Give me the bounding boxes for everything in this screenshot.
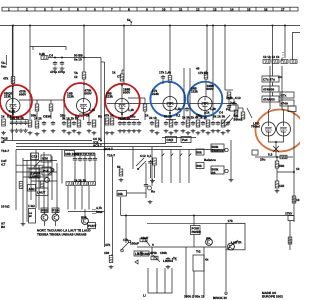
wire bbox=[242, 108, 244, 112]
component cluster bbox=[150, 120, 179, 135]
svg-text:1,2k: 1,2k bbox=[9, 109, 15, 113]
junction bbox=[169, 103, 171, 105]
wire bbox=[104, 62, 106, 150]
svg-text:AC9 7: AC9 7 bbox=[93, 143, 102, 147]
resistor R5 bbox=[168, 76, 172, 83]
svg-text:1,2k: 1,2k bbox=[128, 108, 134, 112]
wire bbox=[83, 112, 85, 121]
capacitor C5 bbox=[19, 121, 23, 126]
wire bbox=[283, 110, 285, 123]
wire bbox=[151, 247, 153, 256]
svg-text:AC9 7: AC9 7 bbox=[104, 147, 113, 151]
wire bbox=[75, 152, 95, 154]
junction bbox=[54, 57, 56, 59]
svg-text:1k 1k 1k 1k: 1k 1k 1k 1k bbox=[263, 55, 280, 59]
component box bbox=[65, 151, 75, 157]
wire bbox=[10, 119, 28, 121]
wire bbox=[17, 7, 19, 11]
tube V5 bbox=[198, 97, 212, 111]
wire bbox=[144, 98, 146, 104]
component box bbox=[41, 208, 48, 213]
wire bbox=[145, 188, 147, 198]
wire bbox=[44, 221, 46, 226]
wire bbox=[12, 84, 14, 100]
wire group bbox=[18, 7, 290, 11]
svg-text:Pa4: Pa4 bbox=[182, 138, 188, 142]
svg-text:10k: 10k bbox=[118, 192, 123, 196]
resistor R18 bbox=[155, 120, 159, 127]
transistor Q5 bbox=[228, 243, 235, 250]
wire bbox=[132, 147, 134, 170]
wire bbox=[212, 26, 214, 121]
pin bbox=[225, 148, 228, 151]
svg-text:TEIGEA TEIGEA UNIUAB UNIU: TEIGEA TEIGEA UNIUAB UNIUAB bbox=[37, 233, 87, 237]
wire bbox=[205, 79, 207, 98]
svg-text:LABTR: LABTR bbox=[231, 241, 242, 245]
svg-text:1k: 1k bbox=[296, 167, 300, 171]
capacitor C32 bbox=[88, 157, 92, 162]
transistor Q2 bbox=[52, 214, 59, 221]
wire bbox=[206, 26, 208, 72]
svg-text:4,7: 4,7 bbox=[1, 163, 6, 167]
switch area bbox=[117, 147, 152, 204]
svg-text:2: 2 bbox=[26, 8, 28, 12]
resistor R40 bbox=[119, 169, 123, 176]
capacitor C16 bbox=[137, 121, 141, 126]
pin bbox=[148, 186, 152, 190]
left of orange circle parts bbox=[230, 105, 238, 111]
resistor R39 bbox=[81, 182, 88, 186]
svg-text:1k: 1k bbox=[296, 198, 300, 202]
svg-text:44Ω: 44Ω bbox=[29, 187, 35, 191]
capacitor C30 bbox=[78, 157, 82, 162]
transistor Q1 bbox=[41, 214, 48, 221]
svg-text:17: 17 bbox=[281, 8, 285, 12]
wire bbox=[83, 58, 85, 73]
capacitor C31 bbox=[83, 157, 87, 162]
resistor R15 bbox=[92, 120, 96, 127]
wire bbox=[120, 119, 139, 121]
svg-text:47k: 47k bbox=[3, 77, 8, 81]
svg-text:7uF: 7uF bbox=[230, 101, 236, 105]
svg-text:223k: 223k bbox=[67, 95, 74, 99]
svg-text:224k: 224k bbox=[152, 92, 159, 96]
ground bbox=[119, 178, 124, 182]
component box bbox=[29, 209, 36, 224]
resistor R32 bbox=[275, 161, 279, 168]
svg-text:Rs: Rs bbox=[151, 190, 155, 194]
wire bbox=[233, 98, 235, 105]
svg-text:474A/60: 474A/60 bbox=[263, 98, 275, 102]
svg-text:1k: 1k bbox=[1, 115, 5, 119]
svg-text:223k: 223k bbox=[106, 95, 113, 99]
svg-text:0,1 0,1 0,1 0,1: 0,1 0,1 0,1 0,1 bbox=[75, 153, 95, 157]
pin bbox=[121, 249, 124, 252]
svg-text:C12: C12 bbox=[140, 154, 146, 158]
svg-text:750ml: 750ml bbox=[251, 125, 260, 129]
component box bbox=[117, 191, 127, 197]
resistor R38 bbox=[74, 182, 81, 186]
wire bbox=[203, 247, 205, 297]
resistor R31 bbox=[280, 155, 287, 159]
junction bbox=[275, 141, 277, 143]
wire bbox=[193, 216, 195, 226]
svg-text:4: 4 bbox=[60, 8, 62, 12]
svg-text:100uF: 100uF bbox=[130, 242, 139, 246]
wire bbox=[68, 211, 105, 213]
resistor R29 bbox=[290, 60, 297, 64]
svg-text:C12: C12 bbox=[235, 96, 241, 100]
ground bbox=[21, 222, 26, 226]
capacitor C11 bbox=[87, 121, 91, 126]
svg-text:1k: 1k bbox=[112, 71, 116, 75]
resistor R36 bbox=[40, 181, 44, 188]
vertical feeds bbox=[11, 26, 13, 141]
right lower chain bbox=[255, 156, 293, 158]
wire bbox=[204, 110, 206, 121]
wire bbox=[225, 118, 233, 127]
wire bbox=[127, 192, 147, 194]
transistor Q3 bbox=[82, 218, 89, 225]
wire bbox=[125, 216, 127, 244]
wire bbox=[277, 171, 294, 173]
wire bbox=[5, 55, 7, 65]
svg-text:474/600: 474/600 bbox=[263, 88, 274, 92]
component box bbox=[280, 92, 294, 98]
lower-left dense block bbox=[16, 150, 96, 227]
resistor R37 bbox=[66, 182, 73, 186]
component box bbox=[196, 163, 204, 169]
wire bbox=[55, 221, 57, 226]
junction bbox=[125, 215, 127, 217]
wire bbox=[83, 26, 85, 58]
wire bbox=[169, 26, 171, 76]
main supply bus bbox=[0, 25, 300, 27]
wire bbox=[166, 119, 176, 121]
right column small parts bbox=[288, 216, 294, 221]
svg-text:4x: 4x bbox=[205, 258, 209, 262]
capacitor C18 bbox=[164, 121, 168, 126]
tube V2 bbox=[77, 99, 91, 113]
svg-text:46: 46 bbox=[196, 67, 200, 71]
ground bbox=[229, 178, 234, 182]
svg-text:0,1: 0,1 bbox=[176, 114, 181, 118]
svg-text:BRICK IN: BRICK IN bbox=[213, 296, 228, 300]
svg-text:44: 44 bbox=[1, 140, 5, 144]
wire bbox=[31, 180, 57, 182]
wire bbox=[26, 160, 28, 222]
wire bbox=[162, 80, 164, 84]
wire bbox=[193, 235, 195, 248]
capacitor C4 bbox=[14, 121, 18, 126]
resistor R28 bbox=[281, 60, 288, 64]
resistor R21 bbox=[196, 120, 200, 127]
pin bbox=[45, 178, 50, 183]
wire bbox=[16, 146, 182, 148]
svg-text:1k: 1k bbox=[86, 114, 90, 118]
svg-text:T16-7: T16-7 bbox=[107, 154, 115, 158]
component box bbox=[36, 188, 48, 196]
capacitor C17 bbox=[150, 121, 154, 126]
svg-text:1,2k: 1,2k bbox=[175, 107, 181, 111]
svg-text:0,1: 0,1 bbox=[75, 115, 80, 119]
svg-text:LAWD: LAWD bbox=[30, 175, 40, 179]
orange circle output pair bbox=[256, 110, 305, 152]
component box bbox=[52, 208, 59, 213]
ground bbox=[166, 265, 171, 269]
svg-text:13: 13 bbox=[213, 8, 217, 12]
svg-text:6a 10: 6a 10 bbox=[74, 58, 82, 62]
svg-text:500: 500 bbox=[279, 164, 284, 168]
wire bbox=[228, 99, 230, 104]
red circle V3 bbox=[105, 84, 140, 119]
wire bbox=[75, 153, 95, 157]
capacitor C25 bbox=[226, 121, 230, 126]
wire bbox=[35, 150, 37, 208]
svg-text:100k: 100k bbox=[160, 251, 167, 255]
wire bbox=[276, 172, 278, 181]
svg-text:17k: 17k bbox=[228, 219, 233, 223]
middle bus lines bbox=[3, 140, 92, 142]
wire bbox=[23, 176, 48, 178]
blue circle V4 bbox=[150, 82, 185, 117]
svg-text:3,3k: 3,3k bbox=[39, 52, 45, 56]
wire bbox=[275, 142, 277, 152]
wire bbox=[151, 147, 153, 187]
resistor R8 bbox=[49, 104, 53, 111]
red circle V2 bbox=[64, 83, 97, 116]
wire bbox=[193, 271, 195, 297]
capacitor C29 bbox=[73, 157, 77, 162]
wire bbox=[268, 110, 270, 123]
wire bbox=[282, 52, 284, 58]
wire bbox=[34, 161, 40, 167]
svg-text:Balance: Balance bbox=[204, 158, 216, 162]
resistor R16 bbox=[105, 118, 109, 125]
component box bbox=[29, 169, 40, 178]
capacitor C13 bbox=[122, 121, 126, 126]
wire bbox=[156, 268, 158, 293]
wire bbox=[282, 109, 284, 110]
wire bbox=[230, 140, 232, 178]
pin bbox=[51, 169, 54, 172]
svg-text:5k: 5k bbox=[117, 165, 121, 169]
svg-text:BBm2: BBm2 bbox=[234, 118, 243, 122]
ground bbox=[148, 200, 153, 204]
tube V4 bbox=[163, 97, 177, 111]
junction bbox=[169, 81, 171, 83]
resistor R43 bbox=[109, 256, 113, 263]
capacitor C10 bbox=[72, 121, 76, 126]
capacitor C35 bbox=[166, 257, 170, 262]
svg-text:1 kΩ: 1 kΩ bbox=[28, 204, 35, 208]
wire bbox=[164, 268, 166, 293]
component box bbox=[41, 155, 51, 162]
wire bbox=[48, 57, 101, 59]
svg-text:GR: GR bbox=[206, 237, 211, 241]
svg-text:223k: 223k bbox=[191, 90, 198, 94]
component box bbox=[262, 86, 279, 92]
junction bbox=[12, 85, 14, 87]
svg-text:47k 1k: 47k 1k bbox=[104, 114, 114, 118]
svg-text:9: 9 bbox=[146, 8, 148, 12]
wire bbox=[123, 26, 125, 85]
terminal strip ruler bbox=[2, 7, 298, 11]
component box bbox=[280, 100, 294, 106]
row of resistors top right bbox=[263, 60, 270, 64]
resistor R44 bbox=[140, 238, 147, 242]
svg-text:47k: 47k bbox=[105, 243, 110, 247]
resistor R25 bbox=[234, 110, 238, 117]
svg-text:B2: B2 bbox=[1, 225, 5, 229]
component box bbox=[31, 153, 39, 160]
svg-text:50k: 50k bbox=[197, 164, 202, 168]
wire bbox=[37, 100, 51, 119]
wire bbox=[170, 150, 172, 184]
svg-text:5: 5 bbox=[77, 8, 79, 12]
svg-text:0,1: 0,1 bbox=[7, 115, 12, 119]
wire bbox=[273, 146, 279, 152]
under-tube component clusters bbox=[1, 119, 55, 136]
wire bbox=[189, 68, 191, 120]
inter-tube resistors bbox=[35, 104, 39, 111]
junction bbox=[83, 83, 85, 85]
resistor R1 bbox=[41, 56, 48, 60]
wire bbox=[144, 238, 150, 246]
resistor R17 bbox=[110, 118, 114, 125]
svg-text:750k: 750k bbox=[226, 96, 233, 100]
svg-text:R5: R5 bbox=[212, 171, 216, 175]
tubes bbox=[6, 99, 20, 113]
wire bbox=[179, 150, 181, 184]
svg-text:5k 2k: 5k 2k bbox=[164, 115, 172, 119]
wire bbox=[16, 164, 44, 166]
wire bbox=[227, 240, 238, 249]
wire bbox=[101, 61, 105, 63]
wire bbox=[169, 110, 171, 121]
svg-text:474A: 474A bbox=[281, 102, 289, 106]
svg-text:7: 7 bbox=[111, 8, 113, 12]
wire bbox=[84, 209, 86, 218]
long mid verticals bbox=[104, 150, 106, 248]
wire bbox=[83, 79, 85, 100]
wire bbox=[293, 33, 301, 61]
svg-text:a: a bbox=[152, 243, 154, 247]
component box bbox=[181, 137, 191, 143]
svg-text:PUNT: PUNT bbox=[88, 224, 97, 228]
wire bbox=[135, 260, 138, 264]
resistor R40 bbox=[89, 182, 96, 186]
wire bbox=[275, 152, 277, 157]
wire bbox=[247, 108, 252, 118]
capacitor C19 bbox=[174, 121, 178, 126]
svg-text:10uF: 10uF bbox=[141, 236, 148, 240]
wire bbox=[224, 26, 226, 91]
capacitor C20 bbox=[181, 121, 185, 126]
wire bbox=[38, 165, 40, 210]
svg-text:5au: 5au bbox=[1, 65, 6, 69]
svg-text:RWER: RWER bbox=[192, 230, 202, 234]
component box bbox=[191, 226, 201, 235]
wire bbox=[293, 112, 295, 157]
wire bbox=[147, 222, 245, 224]
wire bbox=[121, 84, 123, 100]
svg-text:P1B: P1B bbox=[53, 209, 60, 213]
verticals between blue circles bbox=[183, 68, 185, 120]
wire bbox=[153, 255, 160, 262]
wire bbox=[48, 169, 54, 175]
capacitor C33 bbox=[93, 157, 97, 162]
svg-text:5k 1k 3k: 5k 1k 3k bbox=[213, 115, 225, 119]
resistor R19 bbox=[169, 120, 173, 127]
capacitor C28 bbox=[227, 104, 231, 109]
blue circle V5 bbox=[188, 82, 223, 117]
mid cluster caps x75-105 bbox=[62, 150, 105, 212]
lower middle cluster bbox=[109, 216, 238, 298]
wire bbox=[43, 152, 45, 213]
wire bbox=[276, 157, 278, 161]
capacitor C2 bbox=[60, 61, 64, 66]
svg-text:1k: 1k bbox=[206, 111, 210, 115]
output tubes bbox=[262, 122, 276, 136]
wire bbox=[29, 47, 31, 120]
component box bbox=[211, 166, 224, 174]
capacitor C9 bbox=[62, 121, 66, 126]
wire bbox=[272, 92, 274, 96]
svg-text:4n: 4n bbox=[278, 75, 282, 79]
svg-text:2k 1k: 2k 1k bbox=[149, 116, 157, 120]
resistor R6 bbox=[204, 72, 208, 79]
horizontal line through blue tubes bbox=[107, 103, 237, 105]
wire bbox=[128, 97, 145, 99]
pin bbox=[128, 240, 131, 243]
resistor R9 bbox=[143, 104, 147, 111]
component box bbox=[142, 251, 149, 256]
junction bbox=[12, 25, 14, 27]
component cluster bbox=[181, 115, 233, 135]
component box bbox=[88, 223, 96, 229]
svg-text:12: 12 bbox=[196, 8, 200, 12]
wire bbox=[150, 165, 152, 178]
svg-text:1k: 1k bbox=[74, 75, 78, 79]
resistor R30 bbox=[241, 112, 245, 119]
svg-text:0,1: 0,1 bbox=[147, 154, 152, 158]
resistor R41 bbox=[153, 158, 157, 165]
svg-text:470p 470p: 470p 470p bbox=[50, 70, 65, 74]
svg-text:17k 1,4k: 17k 1,4k bbox=[159, 71, 171, 75]
LABTR box bbox=[226, 223, 245, 250]
wire bbox=[281, 66, 283, 109]
svg-text:1k 2k 3k: 1k 2k 3k bbox=[118, 117, 130, 121]
svg-text:1k: 1k bbox=[145, 114, 149, 118]
resistor R33 bbox=[275, 181, 279, 188]
capacitor C24 bbox=[216, 121, 220, 126]
capacitor C14 bbox=[127, 121, 131, 126]
svg-text:1,2k: 1,2k bbox=[210, 107, 216, 111]
wire bbox=[269, 58, 271, 61]
svg-text:17k 4k: 17k 4k bbox=[198, 71, 208, 75]
component box bbox=[134, 251, 141, 256]
svg-text:17kV: 17kV bbox=[285, 212, 293, 216]
resistor R42 bbox=[288, 237, 292, 244]
component box bbox=[288, 106, 296, 112]
wire bbox=[56, 163, 58, 213]
wire bbox=[121, 112, 123, 121]
capacitor C3 bbox=[10, 121, 14, 126]
wire bbox=[75, 162, 95, 182]
capacitor C8 bbox=[51, 121, 55, 126]
svg-text:C4: C4 bbox=[219, 111, 223, 115]
